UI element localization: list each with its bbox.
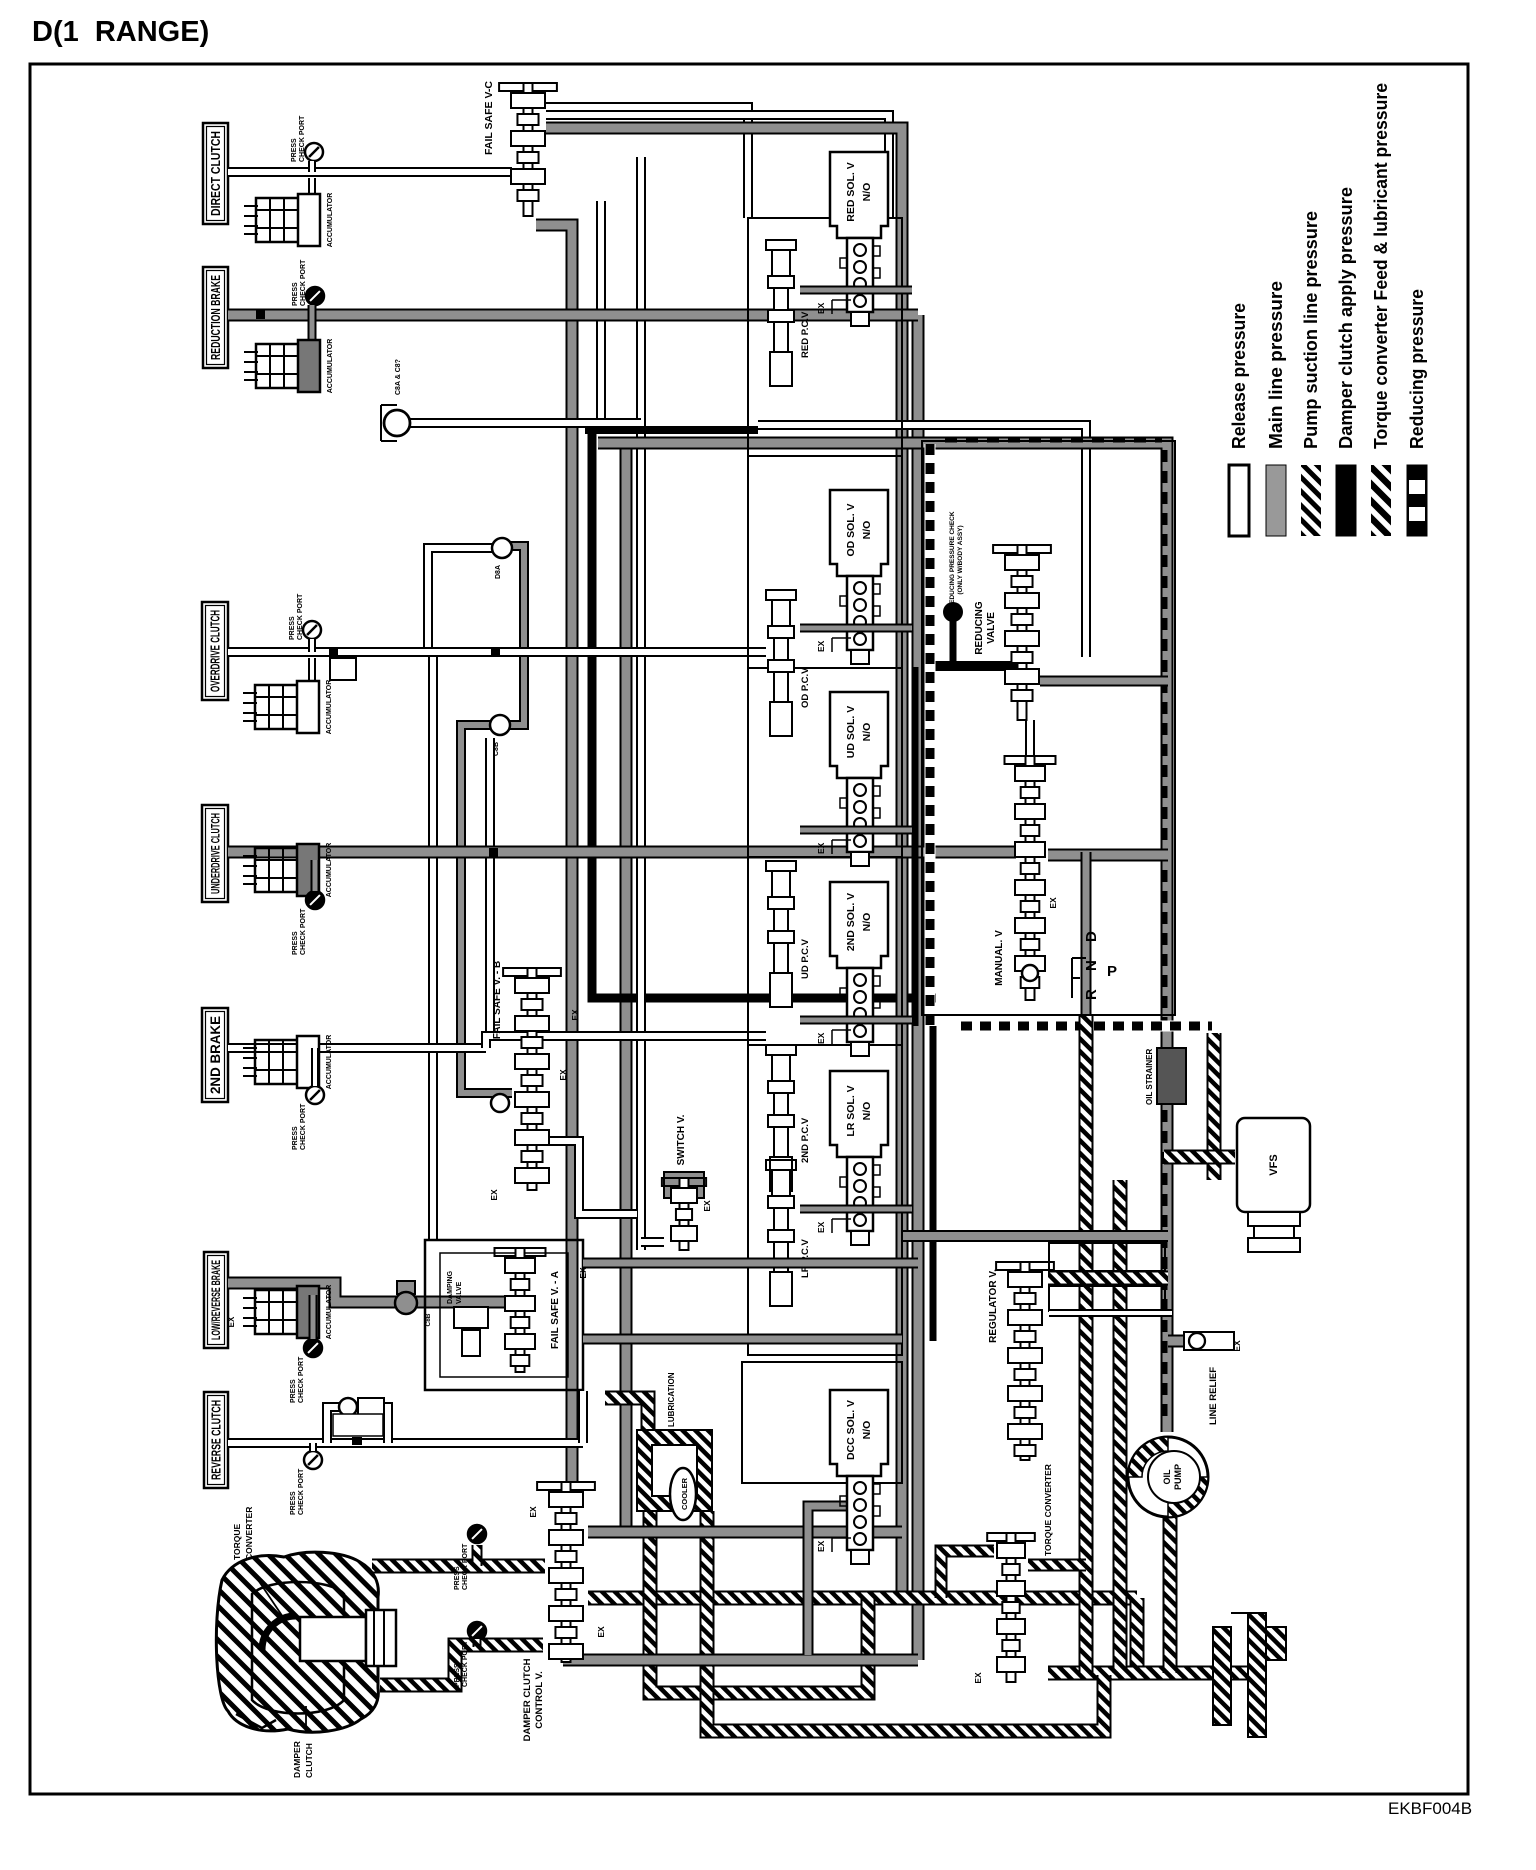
- svg-text:PRESS: PRESS: [292, 1126, 299, 1150]
- svg-text:EX: EX: [973, 1672, 983, 1684]
- svg-text:(ONLY W/BODY ASSY): (ONLY W/BODY ASSY): [957, 525, 964, 594]
- svg-text:DAMPER: DAMPER: [292, 1741, 302, 1778]
- svg-text:COOLER: COOLER: [680, 1477, 689, 1510]
- svg-text:FAIL SAFE V-C: FAIL SAFE V-C: [483, 81, 495, 155]
- svg-text:N/O: N/O: [861, 521, 873, 540]
- svg-text:N/O: N/O: [861, 1102, 873, 1121]
- svg-text:PUMP: PUMP: [1173, 1464, 1183, 1490]
- svg-text:REDUCTION BRAKE: REDUCTION BRAKE: [209, 275, 223, 360]
- svg-text:PRESS: PRESS: [289, 616, 296, 640]
- svg-text:EX: EX: [558, 1069, 568, 1081]
- svg-text:DAMPER CLUTCH: DAMPER CLUTCH: [522, 1658, 533, 1741]
- svg-text:EX: EX: [702, 1200, 712, 1212]
- svg-text:EX: EX: [816, 302, 826, 314]
- svg-text:OVERDRIVE CLUTCH: OVERDRIVE CLUTCH: [209, 610, 223, 692]
- svg-text:LINE RELIEF: LINE RELIEF: [1208, 1367, 1219, 1425]
- svg-text:UD P.C.V: UD P.C.V: [800, 938, 811, 979]
- svg-text:CHECK PORT: CHECK PORT: [462, 1543, 469, 1590]
- svg-text:TORQUE CONVERTER: TORQUE CONVERTER: [1043, 1464, 1053, 1556]
- svg-text:EX: EX: [578, 1267, 588, 1279]
- svg-text:VALVE: VALVE: [456, 1281, 463, 1304]
- svg-text:DAMPING: DAMPING: [447, 1270, 454, 1304]
- svg-text:CHECK PORT: CHECK PORT: [298, 1468, 305, 1515]
- svg-text:PRESS: PRESS: [292, 931, 299, 955]
- svg-text:LUBRICATION: LUBRICATION: [667, 1372, 676, 1427]
- svg-text:D8A: D8A: [495, 565, 502, 579]
- svg-text:ACCUMULATOR: ACCUMULATOR: [326, 843, 333, 898]
- svg-text:ACCUMULATOR: ACCUMULATOR: [327, 339, 334, 394]
- svg-text:UD SOL. V: UD SOL. V: [845, 706, 857, 759]
- svg-text:CHECK PORT: CHECK PORT: [300, 908, 307, 955]
- svg-text:EX: EX: [1232, 1340, 1242, 1352]
- svg-text:MANUAL. V: MANUAL. V: [994, 930, 1005, 986]
- svg-text:VALVE: VALVE: [986, 612, 997, 644]
- svg-text:EX: EX: [489, 1189, 499, 1201]
- svg-text:ACCUMULATOR: ACCUMULATOR: [327, 193, 334, 248]
- svg-text:EX: EX: [1048, 897, 1058, 909]
- svg-text:DIRECT CLUTCH: DIRECT CLUTCH: [208, 131, 223, 216]
- svg-text:RED P.C.V: RED P.C.V: [800, 311, 811, 358]
- svg-text:FAIL SAFE V. - B: FAIL SAFE V. - B: [492, 961, 503, 1039]
- svg-text:REDUCING: REDUCING: [974, 601, 985, 655]
- svg-text:D(1 RANGE): D(1 RANGE): [32, 16, 209, 48]
- svg-text:REDUCING PRESSURE CHECK: REDUCING PRESSURE CHECK: [949, 511, 956, 608]
- svg-text:CONVERTER: CONVERTER: [244, 1507, 254, 1560]
- svg-text:C8B: C8B: [425, 1313, 432, 1326]
- svg-text:EX: EX: [816, 640, 826, 652]
- svg-text:ACCUMULATOR: ACCUMULATOR: [326, 1035, 333, 1090]
- svg-text:C8A & C8?: C8A & C8?: [395, 359, 402, 395]
- svg-text:N/O: N/O: [861, 723, 873, 742]
- svg-text:R N D: R N D: [1083, 924, 1100, 1000]
- svg-text:PRESS: PRESS: [290, 1379, 297, 1403]
- svg-text:N/O: N/O: [861, 183, 873, 202]
- svg-text:Main line pressure: Main line pressure: [1266, 281, 1286, 449]
- svg-text:LOW/REVERSE BRAKE: LOW/REVERSE BRAKE: [211, 1260, 223, 1340]
- svg-text:CHECK PORT: CHECK PORT: [300, 259, 307, 306]
- svg-text:OD P.C.V: OD P.C.V: [800, 667, 811, 708]
- svg-text:EX: EX: [570, 1009, 580, 1021]
- svg-text:TORQUE: TORQUE: [232, 1523, 242, 1560]
- svg-text:EX: EX: [227, 1316, 236, 1327]
- svg-text:EX: EX: [528, 1506, 538, 1518]
- svg-text:FAIL SAFE V. - A: FAIL SAFE V. - A: [550, 1271, 561, 1349]
- svg-text:PRESS: PRESS: [454, 1663, 461, 1687]
- svg-text:Torque converter Feed & lubric: Torque converter Feed & lubricant pressu…: [1371, 83, 1391, 449]
- svg-text:UNDERDRIVE CLUTCH: UNDERDRIVE CLUTCH: [208, 813, 222, 894]
- svg-text:P: P: [1107, 963, 1117, 980]
- svg-text:EKBF004B: EKBF004B: [1388, 1799, 1472, 1818]
- svg-text:EX: EX: [596, 1626, 606, 1638]
- svg-text:PRESS: PRESS: [290, 1491, 297, 1515]
- svg-text:Release pressure: Release pressure: [1229, 303, 1249, 449]
- svg-text:EX: EX: [816, 1540, 826, 1552]
- svg-text:VFS: VFS: [1268, 1154, 1280, 1175]
- svg-text:C8B: C8B: [493, 742, 500, 756]
- svg-text:CHECK PORT: CHECK PORT: [300, 1103, 307, 1150]
- svg-text:CHECK PORT: CHECK PORT: [299, 115, 306, 162]
- svg-text:CHECK PORT: CHECK PORT: [297, 593, 304, 640]
- svg-text:N/O: N/O: [861, 913, 873, 932]
- svg-text:2ND SOL. V: 2ND SOL. V: [845, 893, 857, 951]
- svg-text:PRESS: PRESS: [454, 1566, 461, 1590]
- svg-text:REVERSE CLUTCH: REVERSE CLUTCH: [210, 1400, 224, 1480]
- svg-text:EX: EX: [816, 1221, 826, 1233]
- svg-text:REGULATOR V.: REGULATOR V.: [988, 1269, 999, 1343]
- svg-text:PRESS: PRESS: [292, 282, 299, 306]
- svg-text:EX: EX: [816, 842, 826, 854]
- svg-text:DCC SOL. V: DCC SOL. V: [845, 1400, 857, 1460]
- svg-text:ACCUMULATOR: ACCUMULATOR: [326, 680, 333, 735]
- svg-text:CLUTCH: CLUTCH: [304, 1743, 314, 1778]
- svg-text:OIL STRAINER: OIL STRAINER: [1145, 1048, 1154, 1105]
- svg-text:ACCUMULATOR: ACCUMULATOR: [326, 1285, 333, 1340]
- svg-text:OD SOL. V: OD SOL. V: [845, 503, 857, 556]
- svg-text:LR SOL. V: LR SOL. V: [845, 1085, 857, 1136]
- svg-text:PRESS: PRESS: [291, 138, 298, 162]
- svg-text:SWITCH V.: SWITCH V.: [676, 1114, 687, 1165]
- svg-text:Reducing pressure: Reducing pressure: [1407, 289, 1427, 449]
- svg-text:RED SOL. V: RED SOL. V: [845, 162, 857, 222]
- svg-text:CHECK PORT: CHECK PORT: [462, 1640, 469, 1687]
- svg-text:OIL: OIL: [1162, 1469, 1172, 1485]
- svg-text:2ND BRAKE: 2ND BRAKE: [208, 1016, 223, 1094]
- svg-text:CONTROL V.: CONTROL V.: [534, 1671, 545, 1729]
- svg-text:CHECK PORT: CHECK PORT: [298, 1356, 305, 1403]
- svg-text:Pump suction line pressure: Pump suction line pressure: [1301, 211, 1321, 449]
- svg-text:2ND P.C.V: 2ND P.C.V: [800, 1117, 811, 1163]
- svg-text:N/O: N/O: [861, 1421, 873, 1440]
- svg-text:EX: EX: [816, 1032, 826, 1044]
- svg-text:Damper clutch apply pressure: Damper clutch apply pressure: [1336, 187, 1356, 449]
